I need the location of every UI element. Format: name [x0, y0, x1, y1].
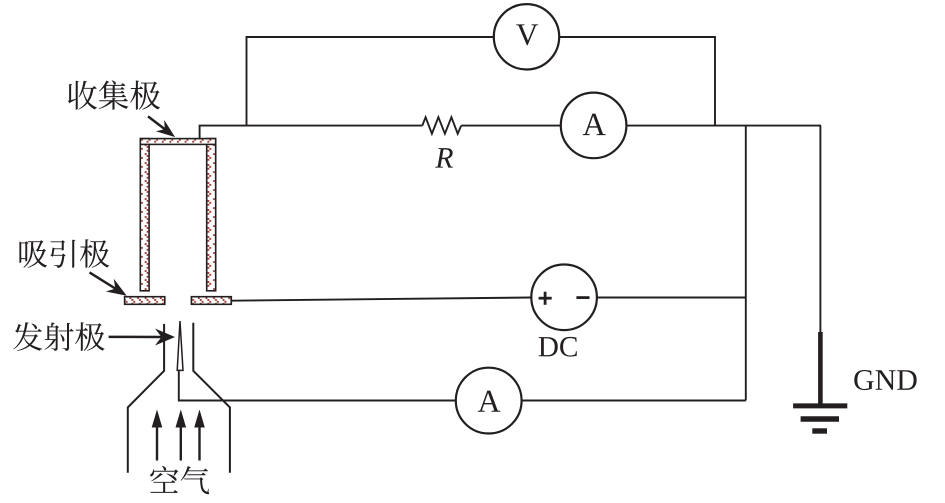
resistor value label R	[435, 148, 453, 167]
collector electrode left bar (收集极)	[140, 139, 149, 291]
wire: ammeter A1 to GND corner	[626, 125, 821, 127]
label 空气 (air inlet)	[150, 466, 209, 494]
ground bar 1	[793, 403, 847, 408]
ground bar 2	[801, 416, 839, 421]
nozzle left wall	[128, 324, 164, 473]
wire: attractor bar to DC source (sloped)	[231, 298, 531, 301]
wire: DC source to right bus	[597, 297, 746, 299]
ground stem (thick)	[818, 332, 823, 404]
ammeter A1 (collector current)	[561, 93, 627, 159]
DC label	[539, 337, 577, 357]
emitter needle (发射极)	[177, 321, 183, 370]
nozzle right wall	[193, 323, 230, 473]
label 收集极 (collector electrode)	[68, 80, 160, 109]
wire: ammeter A2 to right bus	[522, 400, 746, 402]
DC source U1	[531, 265, 597, 331]
wire: right bus vertical (junction to DC and bottom ammeter)	[745, 126, 747, 401]
wire: collector to voltmeter loop (top)	[247, 37, 495, 126]
ammeter A2 (emitter current)	[456, 368, 522, 434]
wire: voltmeter right to down junction	[559, 37, 715, 126]
air flow arrow 1	[152, 410, 163, 461]
resistor R zigzag	[422, 117, 461, 134]
wire: GND drop (thin)	[819, 126, 821, 334]
label 发射极 (emitter needle)	[13, 322, 104, 351]
attractor electrode left bar (吸引极)	[125, 297, 165, 305]
pointer arrow to collector	[148, 116, 175, 137]
wire: collector top tap	[200, 126, 423, 140]
pointer arrow to attractor	[90, 272, 127, 295]
label 吸引极 (attractor electrode)	[19, 239, 109, 268]
air flow arrow 2	[176, 410, 187, 461]
ground bar 3	[812, 428, 827, 433]
voltmeter V	[494, 4, 559, 69]
wire: emitter needle down and right to ammeter A2	[179, 370, 456, 400]
attractor electrode right bar	[191, 297, 231, 305]
collector electrode top bar	[140, 139, 215, 145]
collector electrode right bar	[207, 139, 216, 291]
air flow arrow 3	[194, 410, 205, 461]
wire: resistor to ammeter A1	[461, 125, 561, 127]
GND label	[854, 370, 916, 390]
pointer arrow to emitter	[109, 329, 175, 346]
